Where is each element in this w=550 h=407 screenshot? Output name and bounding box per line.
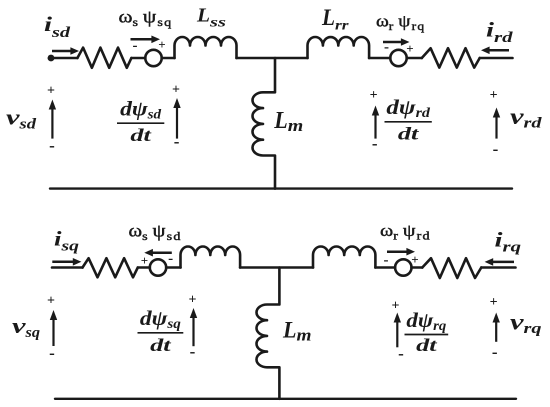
- svg-text:-: -: [174, 132, 180, 151]
- svg-text:-: -: [190, 342, 196, 361]
- svg-text:+: +: [172, 83, 180, 98]
- svg-text:-: -: [133, 38, 138, 54]
- svg-text:-: -: [168, 251, 173, 267]
- svg-text:+: +: [490, 88, 498, 103]
- svg-text:-: -: [49, 344, 55, 363]
- svg-text:dt: dt: [416, 335, 438, 355]
- svg-text:+: +: [490, 295, 498, 310]
- svg-text:+: +: [189, 293, 197, 308]
- svg-text:+: +: [47, 84, 55, 99]
- svg-text:+: +: [141, 253, 148, 268]
- svg-text:dt: dt: [130, 125, 152, 145]
- svg-text:dt: dt: [150, 335, 172, 355]
- svg-text:+: +: [47, 294, 55, 309]
- svg-text:+: +: [158, 37, 165, 52]
- svg-text:dt: dt: [398, 124, 420, 144]
- svg-text:+: +: [370, 88, 378, 103]
- svg-text:+: +: [411, 252, 418, 267]
- svg-text:+: +: [392, 299, 400, 314]
- svg-text:-: -: [493, 140, 499, 159]
- svg-text:-: -: [398, 344, 404, 363]
- svg-text:-: -: [384, 253, 389, 269]
- svg-text:-: -: [372, 134, 378, 153]
- svg-text:-: -: [384, 40, 389, 56]
- svg-text:+: +: [406, 41, 413, 56]
- svg-text:-: -: [49, 136, 55, 155]
- svg-text:-: -: [492, 343, 498, 362]
